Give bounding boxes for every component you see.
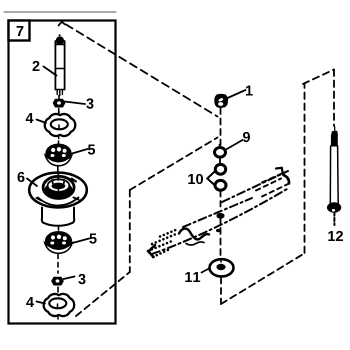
scan artifact line above box (4, 11, 116, 13)
blade plane top edge (130, 138, 218, 191)
vertical axis dashes below nut 1 (220, 108, 222, 145)
washer 11 (210, 259, 234, 276)
bolt plane left edge (304, 85, 306, 254)
label 4a (26, 113, 34, 123)
leader 3a (65, 102, 86, 105)
leader 6 (27, 179, 37, 187)
blade (148, 168, 289, 257)
axis tick housing-bearing (58, 227, 60, 231)
label 6 (18, 172, 25, 182)
nut 3a (54, 100, 65, 107)
washer 4a (45, 112, 76, 139)
spacer 10 (207, 164, 226, 190)
axis tick spindle-nut (58, 96, 60, 100)
washer 4b (44, 294, 75, 319)
axis to bolt plane diagonal (221, 253, 305, 304)
spindle shaft 2 (55, 34, 64, 95)
label 5a (88, 145, 95, 155)
label 7 (17, 26, 24, 36)
axis tick bearing-housing (57, 166, 59, 172)
enclosure rectangle (9, 21, 116, 324)
axis tick nut-washer (58, 109, 60, 114)
axis dashes bearing-nut (57, 254, 59, 273)
axis dashes washer-corner (220, 278, 222, 305)
axis dashes 10-blade (220, 191, 222, 208)
axis tick nut-washer b (57, 287, 59, 292)
leader 4b (37, 302, 46, 304)
nut 3b (52, 278, 63, 285)
bearing 5b (45, 231, 72, 253)
axis dashes blade-washer (220, 218, 222, 258)
bolt plane top edge (303, 70, 334, 85)
bolt 12 (328, 127, 341, 225)
label 1 (246, 86, 253, 96)
label 12 (328, 231, 343, 241)
nut 1 (215, 95, 227, 108)
blade plane to washer 4b diagonal (76, 272, 130, 316)
leader 5b (73, 239, 90, 244)
label 4b (26, 297, 34, 307)
leader 3b (64, 277, 75, 280)
label 9 (243, 132, 250, 142)
leader 4a (37, 120, 47, 124)
axis tick washer-bearing (58, 141, 60, 144)
blade plane left edge (129, 190, 131, 272)
bearing 5a (45, 144, 71, 166)
axis dashes 9-10 (219, 159, 221, 165)
label 10 (188, 174, 203, 184)
dashed axis diagonal top (59, 22, 65, 26)
label 2 (33, 61, 40, 71)
bolt plane right edge (333, 70, 335, 127)
label 11 (185, 272, 200, 282)
label 3a (86, 98, 93, 108)
washer 9 (215, 145, 226, 158)
leader 5a (72, 149, 88, 154)
leader 1 (228, 90, 246, 98)
callout box 7 (9, 21, 30, 41)
spindle housing 6 (29, 172, 87, 226)
label 5b (89, 234, 96, 244)
leader 9 (226, 140, 243, 150)
leader 11 (202, 269, 210, 273)
leader 2 (44, 67, 57, 76)
label 3b (78, 274, 85, 284)
